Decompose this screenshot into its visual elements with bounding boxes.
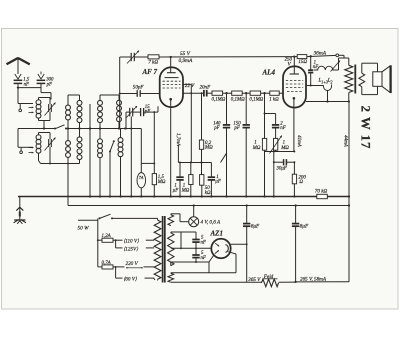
coil L6b bbox=[118, 129, 123, 198]
trimmer capacitor C-L1 bbox=[45, 98, 56, 121]
wire Feld to corner bbox=[279, 206, 350, 284]
coil L1 bbox=[36, 98, 41, 121]
switch mains bbox=[99, 214, 158, 219]
svg-text:55 V: 55 V bbox=[180, 51, 191, 57]
antenna coupling funnel 1 bbox=[15, 74, 21, 80]
capacitor 30uF bbox=[274, 159, 296, 165]
wire AVC corner to audio tie bbox=[140, 129, 142, 164]
trimmer arrow coupling bbox=[331, 61, 341, 72]
trimmer capacitor C-L2 bbox=[45, 133, 56, 164]
wire L4 bottom tie bbox=[41, 163, 80, 165]
node det3 bbox=[263, 92, 265, 94]
core arrows coil L2 bbox=[29, 147, 34, 154]
transformer core output bbox=[354, 65, 356, 94]
svg-text:nF: nF bbox=[201, 256, 206, 261]
svg-text:265 V, 58mA: 265 V, 58mA bbox=[300, 276, 327, 282]
resistor 1 MOhm bbox=[262, 138, 266, 150]
svg-text:nF: nF bbox=[24, 82, 29, 87]
resistor 70 kOhm bbox=[317, 194, 328, 198]
svg-text:1,7mA: 1,7mA bbox=[175, 133, 181, 147]
wire x263.4 to bus bbox=[263, 152, 265, 198]
svg-text:MΩ: MΩ bbox=[181, 188, 190, 193]
capacitor 1 uF b bbox=[208, 163, 215, 198]
switch S1 bbox=[54, 125, 67, 130]
coil L4a bbox=[66, 129, 71, 164]
capacitor 1.5 nF bbox=[14, 80, 23, 88]
antenna coupling funnel 2 bbox=[38, 72, 44, 80]
wire AF coupling rail bbox=[178, 145, 226, 163]
label Feld bbox=[263, 274, 278, 280]
tube AF7 cathode bbox=[169, 98, 172, 101]
capacitor 20nF bbox=[183, 90, 212, 97]
capacitor 2 nF bbox=[272, 125, 279, 138]
transformer heater winding bbox=[168, 273, 209, 283]
svg-text:μF: μF bbox=[215, 180, 220, 185]
resistor 0.2 MOhm bbox=[199, 140, 203, 149]
terminal B+ out bbox=[336, 54, 344, 58]
wire L3 pair ties bbox=[68, 94, 80, 96]
resistor 0.1M-1 bbox=[212, 91, 223, 95]
svg-text:1,2A: 1,2A bbox=[102, 234, 112, 239]
svg-text:nF: nF bbox=[201, 240, 206, 245]
transformer lamp winding bbox=[168, 214, 189, 226]
capacitor 8uF b bbox=[292, 204, 299, 281]
switch S2 bbox=[109, 140, 115, 152]
svg-text:AZ1: AZ1 bbox=[210, 229, 223, 237]
svg-text:pF: pF bbox=[233, 126, 239, 131]
wire HV top to caps bbox=[171, 232, 196, 249]
svg-text:2 W 17: 2 W 17 bbox=[358, 106, 373, 150]
svg-text:AF 7: AF 7 bbox=[142, 68, 158, 76]
wire trimmer leg x131.3 bbox=[130, 117, 132, 198]
svg-text:2: 2 bbox=[331, 79, 333, 84]
terminal A1 bbox=[19, 104, 22, 112]
output secondary loop bbox=[359, 63, 378, 94]
chassis bus bbox=[18, 195, 350, 197]
wire x90 to chassis bus bbox=[89, 104, 91, 198]
svg-text:50pF: 50pF bbox=[133, 85, 145, 91]
wire x273.8 to bus bbox=[273, 152, 275, 198]
svg-text:8μF: 8μF bbox=[251, 223, 260, 229]
node B+ 36mA bbox=[310, 55, 312, 57]
svg-text:50 W: 50 W bbox=[78, 225, 90, 231]
wire volume node bbox=[264, 93, 276, 138]
wire HV centre tap bbox=[171, 247, 212, 249]
coil L6a bbox=[98, 129, 103, 198]
svg-text:0,1MΩ: 0,1MΩ bbox=[231, 97, 245, 102]
wire mains left rail bbox=[97, 218, 99, 267]
coil L3a bbox=[66, 95, 71, 129]
fuse 1.2A bbox=[97, 238, 116, 242]
wire S2 to chassis bus bbox=[109, 152, 111, 198]
tube AL4 grids bbox=[286, 81, 303, 92]
svg-text:7A: 7A bbox=[139, 175, 144, 180]
wire AL4 anode bbox=[306, 85, 324, 87]
svg-text:pF: pF bbox=[213, 126, 219, 131]
svg-text:220 V: 220 V bbox=[126, 261, 139, 267]
antenna bbox=[7, 57, 30, 74]
svg-text:μF: μF bbox=[173, 188, 178, 193]
svg-text:pF: pF bbox=[144, 110, 150, 115]
capacitor 15 pF bbox=[141, 106, 158, 116]
wire 7A tie bbox=[141, 162, 155, 164]
coil L1+3 humps bbox=[314, 66, 339, 70]
wire 150pF leg bbox=[245, 93, 247, 124]
tube AZ1 envelope bbox=[211, 239, 230, 258]
terminal A2 bbox=[20, 148, 23, 154]
dial lamp 4V 0.6A bbox=[189, 204, 199, 226]
coil L5a bbox=[98, 95, 103, 129]
tap 110V bbox=[115, 239, 154, 245]
wire AF7 g2 to x191.3 bbox=[183, 84, 192, 162]
coil L5b bbox=[117, 95, 122, 129]
wire AL4 cathode down bbox=[293, 98, 295, 151]
wire trimmer row left leg bbox=[120, 112, 127, 129]
coil L3b bbox=[77, 95, 82, 129]
tube AF7 envelope bbox=[160, 67, 183, 107]
svg-text:MΩ: MΩ bbox=[204, 146, 213, 151]
svg-text:1 kΩ: 1 kΩ bbox=[269, 97, 279, 102]
wire L5 top tie bbox=[100, 94, 119, 96]
tap 60V bbox=[116, 267, 154, 283]
resistor 0.1M-3 bbox=[242, 91, 260, 95]
svg-text:MΩ: MΩ bbox=[280, 146, 289, 151]
wire AZ1 output bbox=[231, 243, 248, 245]
coil L4b bbox=[77, 129, 82, 164]
svg-text:44mA: 44mA bbox=[343, 135, 350, 148]
svg-text:nF: nF bbox=[280, 126, 285, 131]
tube AF7 grids bbox=[163, 78, 181, 88]
wire field coil bottom bbox=[348, 93, 350, 103]
svg-text:0,1MΩ: 0,1MΩ bbox=[249, 97, 263, 102]
node det1 bbox=[225, 92, 227, 94]
node det2 bbox=[245, 92, 247, 94]
wire 0.2M leg bbox=[201, 92, 203, 140]
transformer core bbox=[163, 216, 165, 283]
core arrows coil L1 bbox=[29, 106, 34, 113]
svg-text:⟨110 V⟩: ⟨110 V⟩ bbox=[123, 239, 139, 245]
resistor 7 kOhm bbox=[148, 55, 159, 59]
wire AF7 cathode down bbox=[170, 99, 172, 197]
wire AZ1 filament loop bbox=[209, 252, 236, 273]
svg-text:Ω: Ω bbox=[299, 180, 303, 185]
wire block A ties bbox=[39, 98, 51, 129]
wire mains entry bbox=[78, 219, 98, 221]
trimmer capacitor C-osc bbox=[127, 51, 139, 64]
svg-text:36mA: 36mA bbox=[313, 51, 327, 57]
fuse 0.7A bbox=[98, 265, 116, 269]
svg-text:70 kΩ: 70 kΩ bbox=[315, 189, 328, 195]
capacitor 50pF bbox=[119, 90, 160, 97]
svg-text:30μF: 30μF bbox=[276, 167, 287, 172]
wire B+ top line bbox=[120, 55, 336, 57]
svg-text:4 V, 0,6 A: 4 V, 0,6 A bbox=[201, 218, 222, 225]
svg-text:pF: pF bbox=[46, 82, 52, 87]
resistor 50 kOhm bbox=[200, 149, 204, 197]
wire heater line2 to Feld bbox=[171, 281, 262, 283]
capacitor 8uF a bbox=[243, 204, 250, 282]
wire 140pF leg bbox=[226, 93, 228, 124]
resistor 0.1M-2 bbox=[223, 91, 243, 95]
svg-text:15Ω: 15Ω bbox=[298, 60, 307, 65]
B+ bus bbox=[68, 204, 350, 206]
svg-text:0,7A: 0,7A bbox=[102, 261, 112, 266]
svg-text:8μF: 8μF bbox=[300, 223, 309, 229]
svg-text:0,1MΩ: 0,1MΩ bbox=[212, 97, 226, 102]
svg-text:MΩ: MΩ bbox=[157, 180, 166, 185]
wire into field coil bbox=[339, 58, 349, 70]
node AL4 top cap bbox=[290, 55, 299, 74]
resistor Feld bbox=[262, 279, 279, 287]
tap 220V bbox=[115, 261, 154, 269]
wire x154.3 link bbox=[153, 111, 155, 163]
resistor 1 MOhm g bbox=[189, 163, 193, 198]
transformer primary bbox=[154, 218, 162, 280]
svg-text:⟨125V⟩: ⟨125V⟩ bbox=[123, 246, 138, 252]
tube AZ1 anodes bbox=[215, 243, 228, 253]
potentiometer 1 MOhm bbox=[270, 136, 282, 154]
wire AZ1 anode 2 path bbox=[171, 256, 214, 273]
wire voice coil return bbox=[306, 91, 349, 103]
trimmer capacitor C-15pF row bbox=[126, 106, 141, 118]
resistor 15 Ohm bbox=[297, 55, 307, 59]
wire block B ties bbox=[39, 132, 51, 134]
coil L2 bbox=[36, 133, 41, 164]
speaker bbox=[373, 65, 391, 93]
svg-text:MΩ: MΩ bbox=[252, 146, 261, 151]
wire antenna junction bbox=[17, 83, 51, 99]
wire x68 to B+ bus bbox=[67, 164, 69, 206]
svg-text:kΩ: kΩ bbox=[205, 191, 211, 196]
wire pot bottom rail bbox=[265, 150, 296, 152]
coil L2 hump bbox=[324, 85, 332, 91]
transformer HV winding bbox=[168, 233, 174, 266]
capacitor 5 nF a bbox=[192, 240, 199, 250]
wire HV bottom bbox=[170, 262, 172, 266]
capacitor 140 pF bbox=[223, 125, 230, 198]
resistor 1 kOhm grid bbox=[261, 91, 283, 95]
resistor 200 Ohm bbox=[292, 162, 296, 197]
wire grid rail x119.7 bbox=[119, 57, 121, 129]
resistor 1.5 MOhm bbox=[152, 163, 156, 197]
capacitor 5 nF b bbox=[192, 248, 199, 262]
capacitor 1 nF tone bbox=[308, 56, 313, 85]
dial lamp 7A bbox=[137, 163, 146, 197]
svg-text:AL4: AL4 bbox=[262, 69, 276, 77]
wire left rail corner to coil A bbox=[18, 88, 33, 104]
svg-text:20nF: 20nF bbox=[200, 85, 212, 91]
speaker field coil bbox=[345, 65, 353, 92]
svg-text:41mA: 41mA bbox=[296, 135, 303, 148]
tube AL4 cathode bbox=[293, 97, 296, 100]
tube AL4 envelope bbox=[283, 66, 306, 107]
wire long B+ vertical bbox=[348, 102, 350, 282]
capacitor 1 uF a bbox=[176, 163, 183, 198]
svg-text:7 kΩ: 7 kΩ bbox=[148, 59, 158, 65]
capacitor 300 pF bbox=[37, 80, 46, 83]
svg-text:⟨60 V⟩: ⟨60 V⟩ bbox=[123, 277, 137, 283]
svg-text:0,9mA: 0,9mA bbox=[179, 58, 194, 64]
wire AVC line bbox=[18, 127, 141, 147]
ground symbol bbox=[14, 197, 26, 224]
tap 125V bbox=[116, 240, 154, 252]
node AF7 top cap bbox=[167, 56, 176, 73]
capacitor 150 pF bbox=[243, 125, 250, 198]
